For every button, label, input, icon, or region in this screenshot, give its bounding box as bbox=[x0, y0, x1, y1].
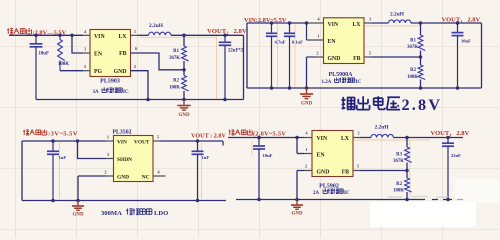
svg-text:VIN: VIN bbox=[94, 34, 105, 40]
svg-text:PL5903: PL5903 bbox=[100, 79, 120, 85]
svg-text:4.7uF: 4.7uF bbox=[275, 39, 286, 44]
junction out cap c2 bbox=[456, 21, 460, 25]
svg-text:100K: 100K bbox=[58, 62, 69, 67]
svg-text:0.1uF: 0.1uF bbox=[292, 39, 303, 44]
wire to R3 c4 bbox=[406, 138, 408, 148]
svg-text:10uF: 10uF bbox=[263, 153, 273, 158]
svg-text:22uF: 22uF bbox=[451, 153, 461, 158]
wire output rail c1 bbox=[171, 34, 244, 36]
wire EN tie c1 bbox=[72, 35, 83, 53]
svg-text:IC: IC bbox=[356, 80, 362, 85]
svg-text:2A: 2A bbox=[313, 191, 320, 196]
svg-text:2: 2 bbox=[316, 51, 318, 56]
wire output rail c2 bbox=[411, 22, 482, 24]
svg-text:VOUT : 2.8V: VOUT : 2.8V bbox=[191, 133, 227, 140]
wire R1-R2 c2 bbox=[420, 51, 422, 66]
svg-text:FB: FB bbox=[119, 51, 127, 57]
junction gnd c1 b bbox=[182, 98, 186, 102]
wire VIN pin4 stub c2 bbox=[316, 22, 324, 24]
junction divider c4 bbox=[405, 136, 409, 140]
wire LX pin1 stub bbox=[131, 34, 139, 36]
inductor 2.2uH c2 bbox=[389, 20, 411, 23]
svg-text:100K: 100K bbox=[169, 86, 180, 91]
wire PG to pullup bbox=[60, 70, 83, 72]
junction cap b c2 bbox=[288, 21, 292, 25]
wire EN tie c2 bbox=[306, 23, 308, 40]
svg-text:R1: R1 bbox=[173, 49, 179, 54]
wire R3-R2 c4 bbox=[406, 163, 408, 179]
svg-text:10uF: 10uF bbox=[461, 39, 471, 44]
svg-text:1.2A: 1.2A bbox=[322, 80, 332, 85]
wire output rail c3 bbox=[161, 140, 224, 142]
wire FB to divider c4 bbox=[353, 170, 361, 172]
svg-text:1uF: 1uF bbox=[202, 155, 210, 160]
svg-text:GND: GND bbox=[317, 170, 330, 176]
resistor R3 367K c4 bbox=[405, 147, 412, 162]
ground c3 bbox=[72, 201, 84, 218]
resistor R1 367K c1 bbox=[182, 46, 189, 61]
svg-text:2.2uH: 2.2uH bbox=[149, 23, 164, 29]
capacitor 4.7uF c2 bbox=[266, 23, 286, 88]
resistor 100K pull-up c1 bbox=[59, 35, 61, 39]
svg-text:1: 1 bbox=[134, 29, 136, 34]
junction in cap c3 bbox=[51, 139, 55, 143]
junction gnd c2 bbox=[305, 86, 309, 90]
junction c1 input cap bbox=[34, 34, 38, 38]
wire right edge c1 bbox=[243, 35, 245, 99]
wire to R1 c2 bbox=[420, 23, 422, 35]
op-amp U3 PL3502 chip body bbox=[114, 136, 154, 182]
wire EN tie c4 bbox=[296, 138, 298, 154]
wire LX pin3 stub c4 bbox=[353, 137, 361, 139]
wire PG pin5 stub bbox=[83, 70, 90, 72]
svg-text:GND: GND bbox=[114, 69, 127, 75]
junction SHDN tie c3 bbox=[76, 139, 80, 143]
wire FB to divider c1 bbox=[131, 53, 185, 70]
wire output end stub c3 bbox=[222, 141, 224, 146]
junction divider c2 bbox=[419, 21, 423, 25]
svg-text:2.8V: 2.8V bbox=[402, 96, 443, 114]
svg-text:GND: GND bbox=[291, 212, 303, 217]
wire left edge c3 bbox=[21, 141, 23, 201]
svg-text:3A: 3A bbox=[93, 90, 100, 95]
wire input rail c2 bbox=[247, 22, 308, 24]
wire SHDN tie c3 bbox=[78, 141, 106, 159]
whiteout rail erosion bbox=[425, 198, 457, 200]
junction in cap c4 bbox=[257, 136, 261, 140]
svg-text:EN: EN bbox=[94, 52, 103, 58]
svg-text:1: 1 bbox=[317, 34, 319, 39]
svg-text:PL5902: PL5902 bbox=[319, 183, 339, 189]
junction gnd c1 c bbox=[223, 98, 227, 102]
svg-text:100K: 100K bbox=[407, 75, 418, 80]
svg-text:IC: IC bbox=[344, 191, 350, 196]
node VIN1 input label bbox=[7, 28, 32, 34]
capacitor 22uF*2 c1 bbox=[219, 35, 244, 99]
svg-text::3V~5.5V: :3V~5.5V bbox=[48, 131, 78, 138]
wire left edge c2 bbox=[246, 23, 248, 88]
wire chip GND down c4 bbox=[304, 170, 312, 172]
wire to R1 c1 bbox=[183, 35, 185, 46]
svg-text:R2: R2 bbox=[173, 79, 179, 84]
svg-text:SHDN: SHDN bbox=[117, 157, 132, 163]
label big output voltage text bbox=[341, 96, 400, 109]
svg-text:2.2uH: 2.2uH bbox=[375, 124, 390, 130]
capacitor 1uF out c3 bbox=[192, 141, 210, 201]
junction divider top c1 bbox=[182, 34, 186, 38]
wire chip GND down c1 bbox=[131, 71, 149, 100]
svg-text:367K: 367K bbox=[169, 56, 180, 61]
capacitor 0.1uF c2 bbox=[284, 23, 303, 88]
svg-text:GND: GND bbox=[178, 113, 190, 118]
wire input rail c1 bbox=[9, 34, 83, 36]
wire R1-R2 c1 bbox=[183, 61, 185, 76]
junction c1 EN tie bbox=[70, 34, 74, 38]
svg-text:GND: GND bbox=[328, 56, 341, 62]
junction EN tie c2 bbox=[305, 21, 309, 25]
resistor R1 367K c2 bbox=[418, 35, 425, 51]
svg-text:2: 2 bbox=[104, 170, 106, 175]
whiteout patch 1 bbox=[370, 202, 476, 228]
svg-text:1: 1 bbox=[305, 147, 307, 152]
ground c4 bbox=[291, 200, 303, 217]
whiteout patch 2 bbox=[455, 179, 500, 203]
svg-text:2: 2 bbox=[305, 164, 307, 169]
svg-text:R1: R1 bbox=[410, 39, 416, 44]
wire LX to inductor c4 bbox=[361, 137, 372, 139]
svg-text:VIN: VIN bbox=[317, 136, 328, 142]
inductor 2.2uH c4 bbox=[371, 134, 393, 137]
wire FB to divider c2 bbox=[364, 56, 372, 58]
svg-text:VIN: VIN bbox=[117, 140, 127, 146]
svg-text:22uF*2: 22uF*2 bbox=[228, 49, 244, 54]
ground c1 bbox=[177, 100, 190, 119]
capacitor 10uF out c2 bbox=[452, 23, 472, 88]
op-amp U4 PL5902 chip body bbox=[312, 131, 353, 177]
wire chip GND down c3 bbox=[106, 175, 114, 177]
svg-text:VIN: VIN bbox=[328, 22, 339, 28]
junction out cap c1 bbox=[223, 34, 227, 38]
capacitor 1uF in c3 bbox=[47, 141, 66, 201]
svg-text:10uF: 10uF bbox=[39, 52, 49, 57]
svg-text:GND: GND bbox=[117, 174, 129, 180]
junction cap a c2 bbox=[270, 21, 274, 25]
op-amp U1 PL5903 chip body bbox=[90, 30, 131, 77]
svg-text:EN: EN bbox=[328, 39, 337, 45]
svg-text:1uF: 1uF bbox=[59, 155, 67, 160]
svg-text:R3: R3 bbox=[396, 153, 402, 158]
svg-text:2: 2 bbox=[134, 64, 136, 69]
wire input rail c4 bbox=[228, 137, 304, 139]
svg-text:367K: 367K bbox=[393, 159, 404, 164]
junction out cap c4 bbox=[446, 136, 450, 140]
svg-text:300MA: 300MA bbox=[101, 210, 122, 217]
svg-text:LX: LX bbox=[118, 34, 127, 40]
wire VOUT pin5 stub bbox=[153, 140, 161, 142]
svg-text:R2: R2 bbox=[410, 68, 416, 73]
resistor R2 100K c2 bbox=[418, 65, 425, 79]
inductor 2.2uH c1 bbox=[149, 32, 171, 35]
wire ground rail c1 bbox=[36, 99, 244, 101]
svg-text:EN: EN bbox=[317, 153, 326, 159]
svg-text:NC: NC bbox=[142, 174, 150, 180]
svg-text:VOUT: VOUT bbox=[134, 140, 150, 146]
junction FB tap c1 bbox=[182, 68, 186, 72]
svg-text:367K: 367K bbox=[407, 45, 418, 50]
resistor R2 100K c4 bbox=[405, 178, 412, 192]
wire EN pin3 stub bbox=[83, 52, 90, 54]
svg-text:2.2uH: 2.2uH bbox=[390, 11, 405, 17]
junction gnd c1 a bbox=[146, 98, 150, 102]
svg-text:FB: FB bbox=[353, 56, 361, 62]
wire chip GND down c2 bbox=[315, 56, 324, 58]
wire LX to inductor bbox=[138, 34, 149, 36]
junction FB tap c2 bbox=[419, 55, 423, 59]
capacitor 10uF c1 bbox=[30, 35, 49, 99]
svg-text:100K: 100K bbox=[393, 188, 404, 193]
svg-text:GND: GND bbox=[72, 213, 84, 218]
junction EN tie c4 bbox=[295, 136, 299, 140]
svg-text:GND: GND bbox=[301, 102, 313, 107]
capacitor 10uF c4 bbox=[253, 138, 273, 200]
wire LX to inductor c2 bbox=[372, 22, 389, 24]
junction gnd c3 bbox=[76, 199, 80, 203]
svg-text:R2: R2 bbox=[396, 182, 402, 187]
wire VIN pin4 stub c4 bbox=[304, 137, 312, 139]
junction out cap c3 bbox=[196, 139, 200, 143]
wire NC stub bbox=[153, 175, 166, 177]
op-amp U2 PL5900A chip body bbox=[324, 18, 365, 64]
node VIN4 input label bbox=[229, 129, 253, 135]
svg-text:LX: LX bbox=[352, 22, 361, 28]
junction c1 pullup bbox=[58, 34, 62, 38]
svg-text:PL5900A: PL5900A bbox=[329, 72, 354, 78]
ground c2 bbox=[300, 88, 313, 107]
wire LX pin3 stub c2 bbox=[364, 22, 372, 24]
svg-text:PL3502: PL3502 bbox=[113, 130, 132, 136]
wire output rail c4 bbox=[393, 137, 463, 139]
wire VIN pin1 stub c3 bbox=[106, 140, 114, 142]
svg-text:LDO: LDO bbox=[154, 210, 168, 217]
svg-text:LX: LX bbox=[341, 136, 350, 142]
junction gnd c4 bbox=[295, 198, 299, 202]
wire ground rail c3 bbox=[22, 200, 226, 202]
svg-text:1: 1 bbox=[107, 135, 109, 140]
svg-text:PG: PG bbox=[94, 69, 103, 75]
wire R2 to gnd rail bbox=[183, 91, 185, 100]
wire input rail c3 bbox=[22, 140, 106, 142]
svg-text:IC: IC bbox=[123, 90, 129, 95]
node VIN3 input label bbox=[23, 129, 47, 135]
resistor R2 100K c1 bbox=[182, 76, 189, 92]
wire VIN pin4 stub bbox=[83, 34, 90, 36]
svg-text:FB: FB bbox=[342, 170, 350, 176]
wire ground rail c2 bbox=[247, 87, 482, 89]
wire SHDN pin3 stub bbox=[106, 158, 114, 160]
wire right edge c2 bbox=[481, 23, 483, 88]
watermark ghost bbox=[388, 196, 448, 199]
grid bbox=[15, 0, 17, 238]
tan fringe artifacts bbox=[140, 36, 216, 38]
capacitor 22uF c4 bbox=[442, 138, 461, 200]
wire ground rail c4 bbox=[236, 199, 463, 201]
junction FB tap c4 bbox=[405, 169, 409, 173]
